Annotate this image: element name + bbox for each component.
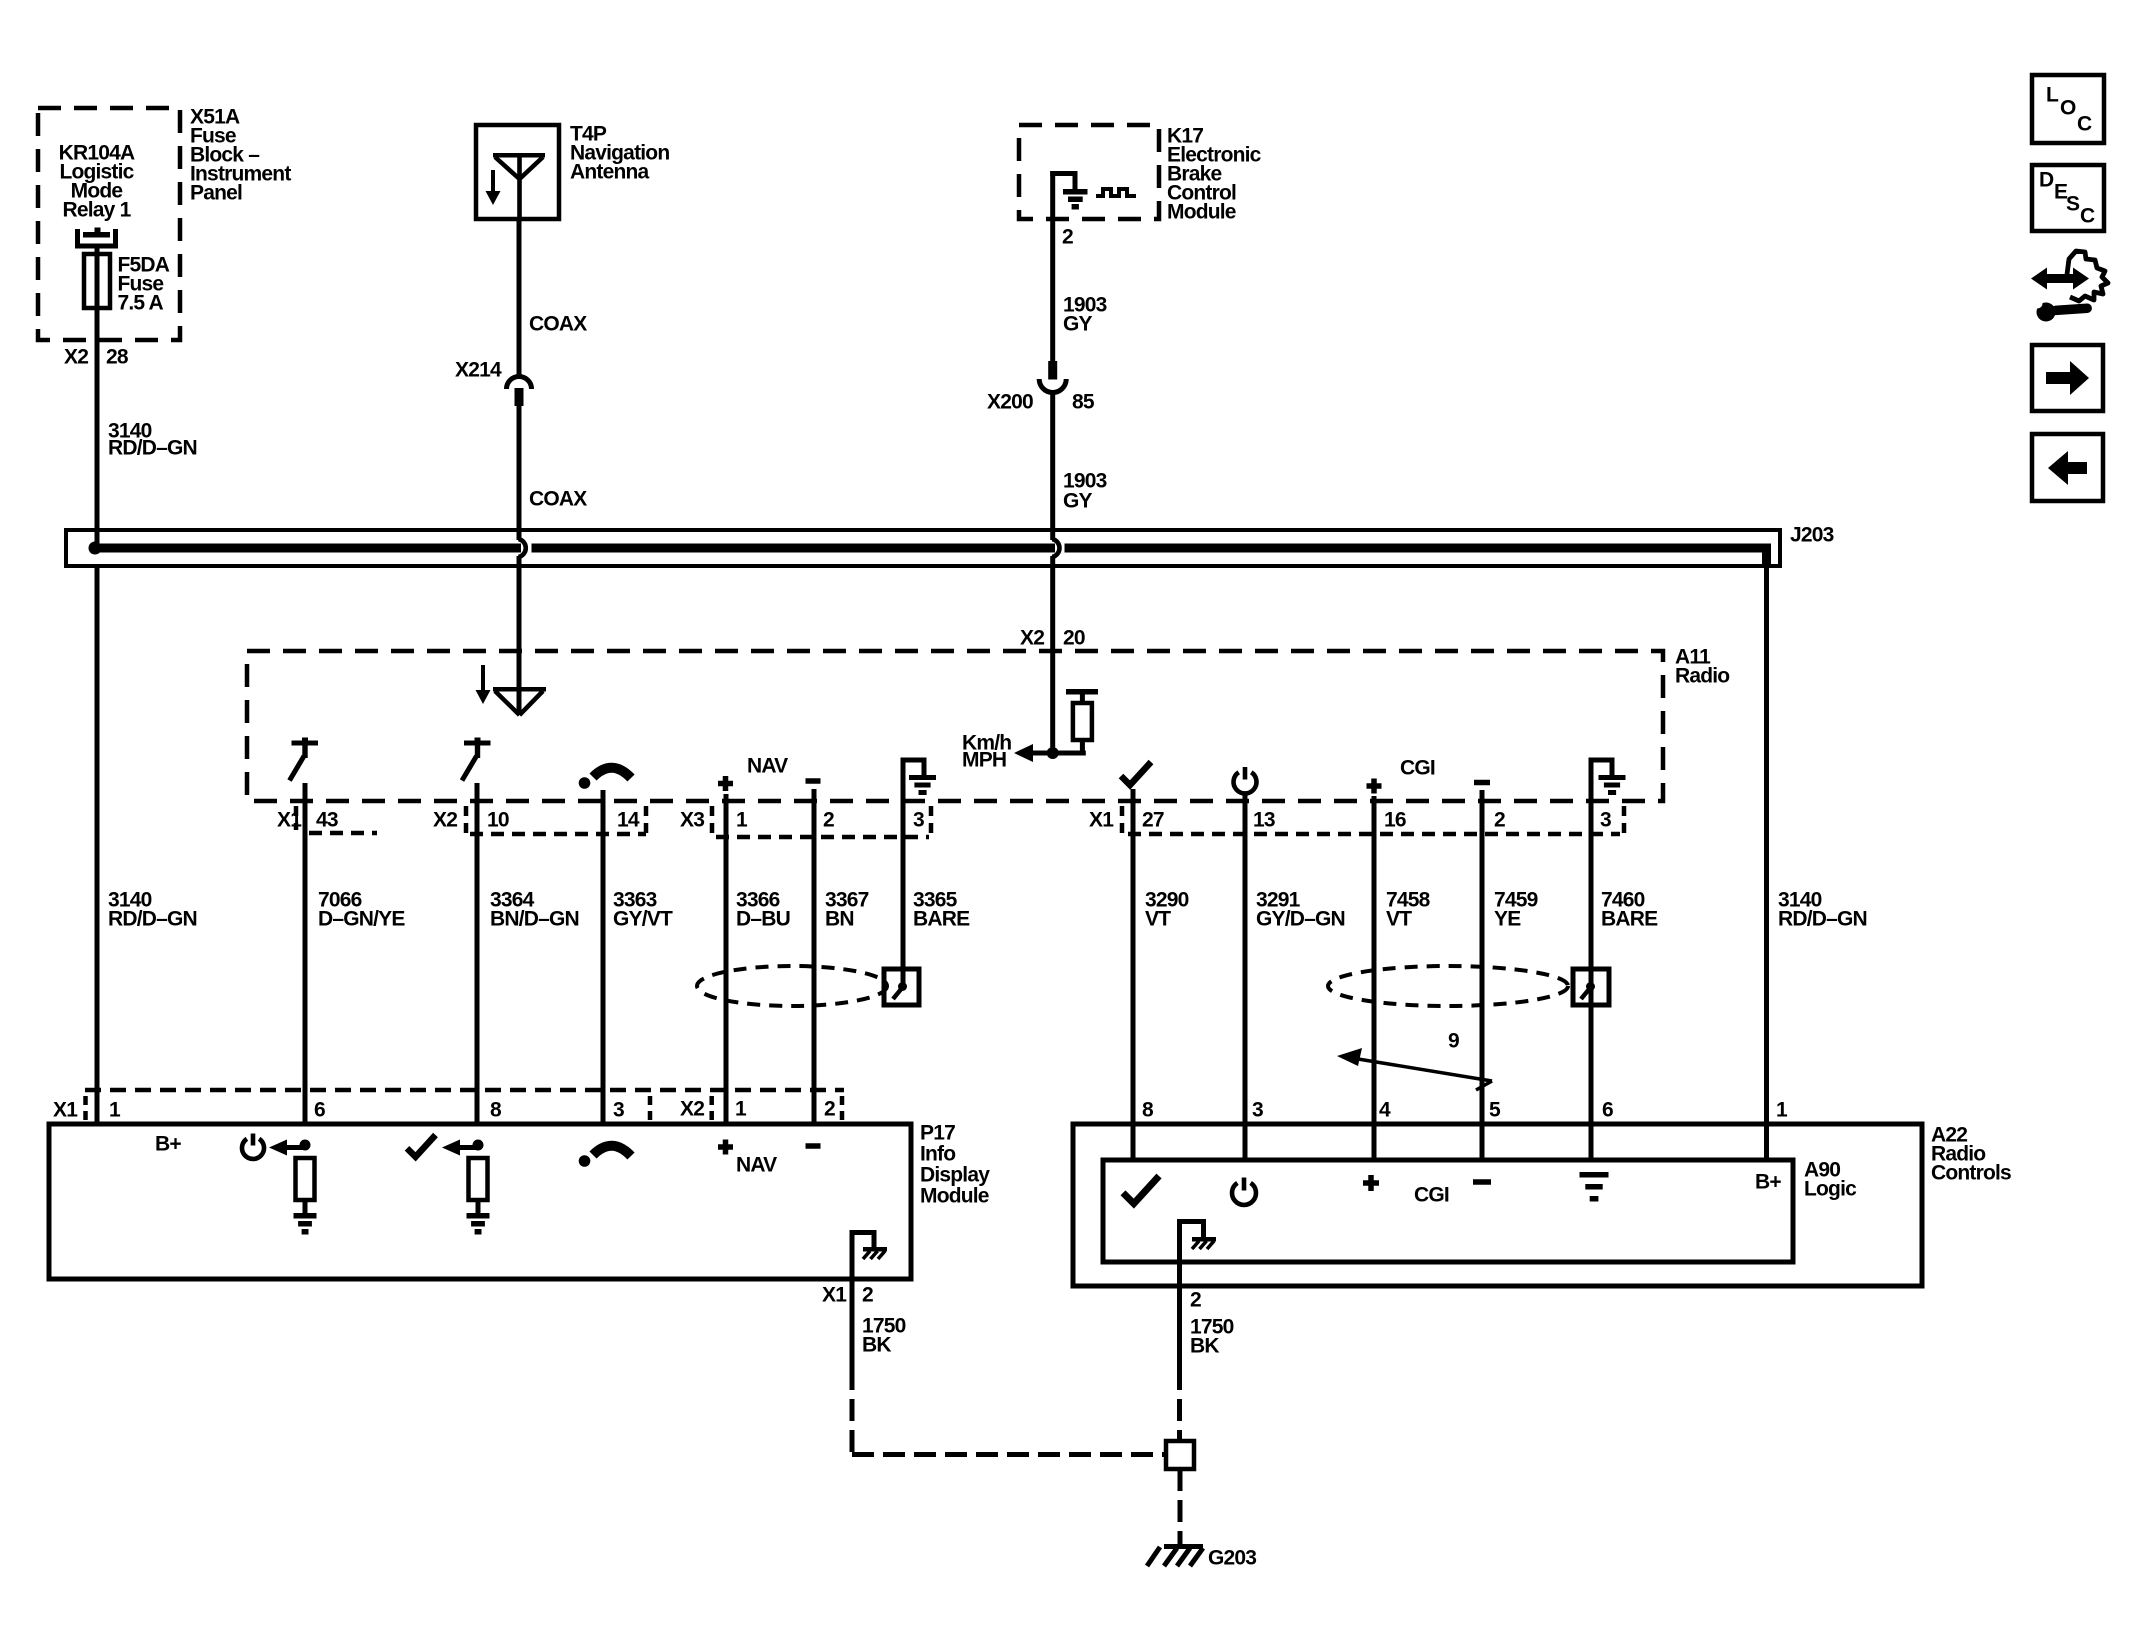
wire A11 CGI+ stub (1372, 796, 1377, 801)
svg-text:8: 8 (1142, 1098, 1154, 1121)
svg-text:16: 16 (1384, 808, 1406, 831)
ground hook inside K17 (1050, 171, 1055, 219)
svg-text:O: O (2060, 96, 2076, 119)
wire 3290 VT (1131, 801, 1136, 1160)
svg-text:2: 2 (1190, 1288, 1201, 1311)
connector X200 (pin and socket arc) (1048, 361, 1057, 380)
svg-text:Panel: Panel (190, 181, 242, 204)
left arrow glyph (2060, 462, 2087, 474)
svg-text:BK: BK (862, 1333, 891, 1356)
svg-text:1: 1 (736, 808, 748, 831)
svg-text:3: 3 (1600, 808, 1611, 831)
svg-text:X2: X2 (1020, 626, 1044, 649)
svg-text:X2: X2 (64, 345, 88, 368)
svg-text:COAX: COAX (529, 312, 587, 335)
fuse F5DA body (84, 254, 110, 308)
minus sign NAV in P17 (806, 1143, 821, 1149)
square wave symbol inside K17 (1096, 189, 1136, 196)
twisted pair ellipse CGI (1328, 966, 1568, 1006)
svg-text:RD/D–GN: RD/D–GN (108, 907, 197, 930)
svg-text:BK: BK (1190, 1334, 1219, 1357)
svg-text:D–GN/YE: D–GN/YE (318, 907, 405, 930)
callout arrow 9 (1352, 1058, 1492, 1081)
plus sign NAV in P17 (718, 1144, 733, 1150)
coax wire antenna to X214 (517, 219, 522, 376)
navigation antenna T4P box (476, 125, 559, 219)
svg-text:VT: VT (1386, 907, 1412, 930)
minus sign CGI in A90 (1473, 1179, 1491, 1185)
svg-text:85: 85 (1072, 390, 1095, 413)
phone icon in P17 (579, 1155, 591, 1167)
svg-text:RD/D–GN: RD/D–GN (1778, 907, 1867, 930)
svg-text:10: 10 (487, 808, 509, 831)
dashed wire square to G203 (1178, 1469, 1183, 1545)
svg-text:Antenna: Antenna (570, 160, 650, 183)
power symbol in A11 (1234, 772, 1257, 793)
wire hop where 1903 crosses J203 (1052, 539, 1059, 557)
svg-text:1: 1 (1776, 1098, 1788, 1121)
wire 1903 GY upper segment (1050, 219, 1055, 361)
svg-text:COAX: COAX (529, 487, 587, 510)
svg-text:GY: GY (1063, 312, 1093, 335)
svg-text:RD/D–GN: RD/D–GN (108, 436, 197, 459)
wire 1903 GY lower segment (1050, 392, 1055, 540)
power symbol in A90 (1232, 1183, 1256, 1205)
svg-text:14: 14 (617, 808, 640, 831)
svg-text:7.5 A: 7.5 A (118, 291, 164, 314)
shield termination square NAV (884, 969, 919, 1005)
coax wire X214 to bus (517, 406, 522, 540)
svg-text:X1: X1 (53, 1098, 78, 1121)
svg-text:2: 2 (1494, 808, 1505, 831)
svg-text:Controls: Controls (1931, 1161, 2011, 1184)
check mark in A90 (1123, 1176, 1159, 1204)
svg-text:B+: B+ (1755, 1170, 1781, 1193)
wire 7066 D-GN/YE (303, 801, 308, 1124)
svg-text:X3: X3 (680, 808, 704, 831)
svg-text:13: 13 (1253, 808, 1275, 831)
svg-text:D–BU: D–BU (736, 907, 790, 930)
info display module P17 box (49, 1124, 911, 1279)
svg-text:YE: YE (1494, 907, 1521, 930)
earth ground under pin8 resistor (467, 1213, 490, 1219)
wire P17 pin X1-2 ground lead (850, 1235, 855, 1368)
wire 3365 BARE shield (901, 801, 906, 985)
wire 7458 VT (1372, 801, 1377, 1160)
svg-text:3: 3 (613, 1098, 624, 1121)
wire 3140 RD/D-GN bus to P17 pin1 (95, 566, 100, 1124)
check mark in P17 (407, 1135, 436, 1157)
minus sign CGI in A11 (1474, 780, 1490, 786)
svg-text:28: 28 (106, 345, 129, 368)
svg-text:2: 2 (862, 1283, 873, 1306)
connector row dashes above P17 (85, 1088, 844, 1093)
earth ground symbol in A90 (1580, 1172, 1609, 1178)
svg-text:20: 20 (1063, 626, 1085, 649)
svg-text:Radio: Radio (1675, 664, 1729, 687)
wire 3140 from fuse to bus (95, 248, 100, 548)
wire A11 pin10 stub (475, 783, 480, 801)
wire 3291 GY/D-GN (1243, 801, 1248, 1160)
wire 7460 BARE shield (1589, 801, 1594, 1160)
splice pack J203 outline (66, 530, 1780, 566)
svg-text:X2: X2 (680, 1097, 704, 1120)
dashed ground wire from P17 (850, 1368, 855, 1452)
svg-text:Module: Module (920, 1184, 989, 1207)
antenna symbol in T4P (493, 153, 545, 158)
plus sign NAV in A11 (718, 781, 733, 787)
svg-text:43: 43 (316, 808, 338, 831)
pin box X1 group at A11 (1120, 806, 1125, 834)
junction dot at left end of J203 bus (89, 542, 102, 555)
svg-text:X2: X2 (433, 808, 457, 831)
module K17 dashed outline (1019, 125, 1159, 219)
wire A11 pin14 stub (601, 790, 606, 801)
ground hook at A11 pin3 CGI (1589, 758, 1594, 801)
svg-text:X214: X214 (455, 358, 502, 381)
svg-text:X1: X1 (822, 1283, 847, 1306)
svg-text:BN: BN (825, 907, 854, 930)
pin box X3 group at A11 (710, 806, 715, 837)
svg-text:BN/D–GN: BN/D–GN (490, 907, 579, 930)
icon box LOC (2032, 75, 2104, 143)
svg-text:5: 5 (1489, 1098, 1501, 1121)
wire 3364 BN/D-GN (475, 801, 480, 1124)
resistor at Km/h node (1066, 689, 1098, 695)
resistor at P17 pin8 (469, 1158, 488, 1200)
svg-text:C: C (2077, 112, 2092, 135)
wire 1903 bus to Km/h node (1050, 556, 1055, 753)
svg-text:X1: X1 (1089, 808, 1114, 831)
twisted pair ellipse NAV (697, 966, 887, 1006)
svg-text:GY/VT: GY/VT (613, 907, 673, 930)
wire A11 pin43 stub (303, 783, 308, 801)
arrow to P17 pin6 and junction dot (269, 1140, 287, 1156)
radio controls A22 box (1073, 1124, 1922, 1286)
svg-text:G203: G203 (1208, 1546, 1256, 1569)
arrow to P17 pin8 and junction dot (442, 1140, 460, 1156)
icon box right arrow (2032, 345, 2103, 411)
svg-text:CGI: CGI (1400, 756, 1435, 779)
small arrow beside receive symbol (481, 665, 485, 691)
wire A11 pin27 stub (1131, 789, 1136, 801)
svg-text:NAV: NAV (736, 1153, 777, 1176)
svg-text:CGI: CGI (1414, 1183, 1449, 1206)
wire 7459 YE (1480, 801, 1485, 1160)
icon double arrow with wrench (2044, 274, 2076, 283)
svg-text:9: 9 (1448, 1029, 1459, 1052)
svg-text:Relay 1: Relay 1 (63, 198, 132, 221)
fuse block X51A dashed outline (38, 108, 180, 340)
plus sign CGI in A11 (1367, 783, 1382, 789)
svg-text:2: 2 (1062, 225, 1073, 248)
svg-text:L: L (2046, 83, 2059, 106)
chassis ground hook in P17 (850, 1230, 877, 1235)
wire A90 pin2 ground lead (1177, 1224, 1182, 1368)
connector X214 (socket arc and pin) (507, 377, 532, 390)
svg-text:Info: Info (920, 1142, 955, 1165)
icon box DESC (2032, 165, 2104, 231)
ground G203 symbol (1147, 1547, 1160, 1566)
svg-text:NAV: NAV (747, 754, 788, 777)
wire 3140 right side bus to A22 pin1 (1764, 566, 1769, 1160)
wire A11 NAV+ stub (724, 794, 729, 801)
svg-text:2: 2 (824, 1097, 835, 1120)
logic block A90 box (1103, 1160, 1793, 1262)
svg-text:C: C (2080, 204, 2095, 227)
svg-text:X200: X200 (987, 390, 1033, 413)
svg-text:B+: B+ (155, 1132, 181, 1155)
svg-text:Logic: Logic (1804, 1177, 1857, 1200)
svg-text:4: 4 (1379, 1098, 1391, 1121)
svg-text:2: 2 (823, 808, 834, 831)
pin box dash under pin 43 (294, 806, 299, 830)
wire 3366 D-BU (724, 801, 729, 1124)
svg-text:GY/D–GN: GY/D–GN (1256, 907, 1345, 930)
svg-text:VT: VT (1145, 907, 1171, 930)
svg-text:27: 27 (1142, 808, 1164, 831)
wire A11 pin13 stub (1243, 795, 1248, 801)
svg-text:3: 3 (1252, 1098, 1263, 1121)
svg-text:D: D (2039, 168, 2054, 191)
wire hop where coax crosses J203 (519, 539, 526, 557)
radio A11 dashed outline (247, 651, 1663, 801)
svg-text:X1: X1 (277, 808, 302, 831)
switch symbol at A11 pin X1-43 (292, 741, 319, 746)
pin box X2 group at A11 (464, 806, 469, 834)
svg-text:1: 1 (109, 1098, 121, 1121)
bus wire inside J203 (95, 544, 521, 553)
check mark symbol in A11 (1121, 762, 1151, 785)
plus sign CGI in A90 (1363, 1180, 1379, 1186)
svg-text:BARE: BARE (1601, 907, 1658, 930)
ground hook at A11 pin3 NAV (901, 758, 906, 801)
svg-text:J203: J203 (1790, 523, 1834, 546)
wire A11 CGI- stub (1480, 790, 1485, 801)
svg-text:1: 1 (735, 1097, 747, 1120)
svg-text:3: 3 (913, 808, 924, 831)
power symbol in P17 (242, 1139, 264, 1159)
svg-text:P17: P17 (920, 1121, 955, 1144)
dashed ground wire from A22 (1177, 1368, 1182, 1441)
switch symbol at A11 pin X2-10 (464, 741, 491, 746)
chassis ground hook in A90 (1177, 1219, 1206, 1224)
svg-text:MPH: MPH (962, 748, 1006, 771)
svg-text:6: 6 (1602, 1098, 1613, 1121)
svg-text:Module: Module (1167, 200, 1236, 223)
svg-text:Display: Display (920, 1163, 990, 1186)
antenna receive symbol in A11 (517, 556, 522, 714)
shield termination square CGI (1573, 969, 1609, 1005)
wire 3367 BN (812, 801, 817, 1124)
arrow and junction at Km/h node (1014, 744, 1033, 762)
icon box left arrow (2032, 434, 2103, 501)
svg-text:S: S (2066, 192, 2080, 215)
wire 3363 GY/VT (601, 801, 606, 1124)
right arrow glyph (2046, 372, 2072, 384)
pin box verticals above P17 (83, 1096, 88, 1120)
minus sign NAV in A11 (806, 778, 821, 784)
resistor at P17 pin6 (296, 1158, 315, 1200)
down arrow in T4P (491, 170, 495, 192)
phone icon in A11 (579, 777, 591, 789)
svg-text:6: 6 (314, 1098, 325, 1121)
svg-text:GY: GY (1063, 489, 1093, 512)
relay KR104A contact symbol (75, 229, 80, 249)
earth ground under pin6 resistor (294, 1213, 317, 1219)
junction square S203 (1166, 1441, 1194, 1469)
svg-text:BARE: BARE (913, 907, 970, 930)
svg-text:8: 8 (490, 1098, 502, 1121)
wire A11 NAV- stub (812, 789, 817, 801)
